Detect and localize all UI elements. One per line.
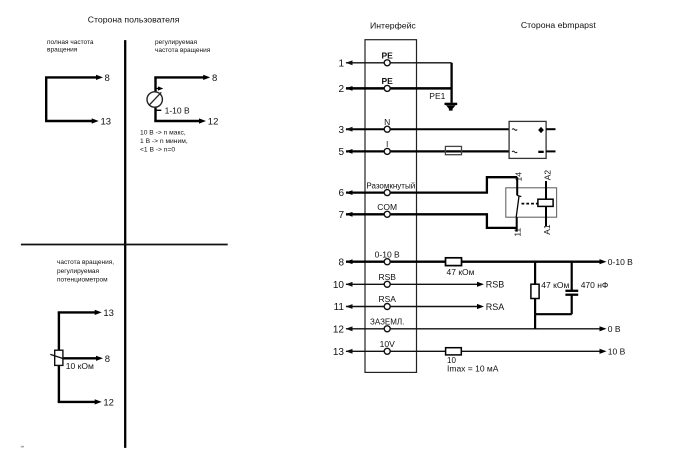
svg-text:8: 8 [338, 257, 344, 268]
svg-text:<1 В -> n=0: <1 В -> n=0 [140, 146, 175, 153]
pin 12 wire [346, 328, 602, 330]
svg-text:6: 6 [338, 188, 344, 199]
pin 13 wire [346, 350, 602, 352]
ground PE1 [445, 103, 458, 105]
wire jumper top to pin 8 [45, 76, 98, 78]
capacitor C1 [571, 262, 573, 290]
pin 6 wire [346, 177, 517, 192]
svg-text:PE1: PE1 [429, 91, 445, 101]
svg-text:0-10 В: 0-10 В [608, 257, 633, 267]
svg-text:полная частота: полная частота [47, 39, 94, 46]
wire pot wiper to pin 8 [63, 357, 97, 359]
svg-text:12: 12 [208, 117, 219, 128]
wire source bottom to pin 12 [154, 120, 200, 122]
svg-text:10 кОм: 10 кОм [66, 361, 94, 371]
svg-text:l: l [386, 139, 388, 149]
pin 8 wire [346, 261, 602, 263]
svg-text:8: 8 [105, 354, 110, 365]
resistor R1 47k [446, 258, 462, 266]
mech link dashed [522, 203, 539, 205]
wire R2 top drop [534, 262, 536, 285]
contact terminal 14 [516, 177, 518, 195]
svg-text:1: 1 [338, 58, 344, 69]
svg-text:RSB: RSB [486, 280, 505, 290]
svg-text:8: 8 [212, 73, 217, 84]
wire to 0V line [534, 314, 536, 329]
wire pot bottom to pin 12 [58, 401, 96, 403]
svg-text:47 кОм: 47 кОм [541, 280, 569, 290]
wire jumper bottom to pin 13 [45, 120, 93, 122]
wire pot top to pin 13 [58, 311, 96, 313]
pin 5 wire [346, 150, 509, 152]
svg-text:Разомкнутый: Разомкнутый [366, 181, 415, 190]
wire PE drop [450, 63, 452, 103]
svg-text:RSB: RSB [378, 272, 396, 282]
svg-text:14: 14 [514, 172, 524, 182]
svg-text:2: 2 [338, 84, 344, 95]
svg-text:COM: COM [377, 202, 397, 212]
interface pin circles [384, 60, 390, 355]
voltage source V1 1-10V [147, 92, 162, 107]
pin 10 wire [346, 283, 479, 285]
svg-text:8: 8 [105, 73, 110, 84]
power module U1 [509, 121, 546, 158]
resistor R2 47k vertical [531, 284, 539, 298]
svg-text:470 нФ: 470 нФ [581, 280, 609, 290]
label: full speed block [47, 39, 94, 54]
resistor R4 10 [446, 348, 462, 355]
divider vertical [124, 40, 126, 448]
svg-text:12: 12 [103, 398, 114, 409]
svg-text:регулируемая: регулируемая [57, 268, 100, 275]
wire pot vertical [58, 312, 60, 402]
svg-text:1-10 В: 1-10 В [165, 106, 190, 116]
svg-text:0-10 В: 0-10 В [375, 249, 400, 259]
pin 7 wire [346, 214, 517, 228]
svg-text:Интерфейс: Интерфейс [370, 20, 416, 30]
artifact dash [21, 446, 24, 448]
svg-text:PE: PE [382, 76, 394, 86]
contact terminal 11 [516, 217, 518, 231]
label: adjustable speed block [155, 39, 211, 54]
svg-text:12: 12 [333, 324, 345, 335]
svg-text:RSA: RSA [486, 302, 505, 312]
terminal A1 [545, 206, 547, 226]
interface terminal strip X1 [365, 40, 417, 373]
label: potentiometer speed block [57, 259, 114, 283]
svg-text:Сторона ebmpapst: Сторона ebmpapst [521, 20, 596, 30]
wire source circuit vertical [154, 77, 156, 121]
svg-text:13: 13 [103, 308, 114, 319]
wire source top to pin 8 [154, 76, 204, 78]
wire R2 bottom [534, 299, 536, 315]
svg-text:PE: PE [382, 51, 394, 61]
svg-text:11: 11 [513, 228, 523, 237]
pin 1 wire [346, 62, 452, 64]
svg-text:частота вращения,: частота вращения, [57, 259, 114, 266]
stub out top [546, 128, 555, 130]
pin labels [366, 51, 415, 350]
svg-text:A1: A1 [542, 224, 552, 235]
stub out bottom [546, 150, 555, 152]
svg-text:частота вращения: частота вращения [155, 47, 211, 54]
svg-text:регулируемая: регулируемая [155, 39, 198, 46]
svg-text:Imax = 10 мА: Imax = 10 мА [447, 363, 499, 373]
contact blade [517, 195, 521, 196]
svg-text:10: 10 [333, 280, 345, 291]
svg-text:RSA: RSA [378, 294, 396, 304]
pin 3 wire [346, 128, 509, 130]
svg-text:вращения: вращения [47, 47, 78, 54]
wire joiner [535, 313, 572, 315]
svg-text:7: 7 [338, 210, 344, 221]
terminal A2 [545, 181, 547, 199]
svg-text:10 В -> n макс,: 10 В -> n макс, [140, 130, 186, 137]
svg-text:1 В -> n миним,: 1 В -> n миним, [140, 138, 188, 145]
svg-text:потенциометром: потенциометром [57, 276, 108, 283]
svg-text:ЗАЗЕМЛ.: ЗАЗЕМЛ. [370, 318, 404, 327]
divider horizontal [21, 244, 228, 246]
relay K1 box [506, 188, 557, 217]
svg-text:10 В: 10 В [608, 347, 626, 357]
svg-text:11: 11 [334, 302, 345, 313]
svg-text:13: 13 [101, 117, 112, 128]
svg-text:3: 3 [338, 125, 344, 136]
svg-text:A2: A2 [543, 170, 553, 181]
wire jumper 8-13 vertical [45, 77, 47, 121]
svg-text:0 В: 0 В [608, 324, 621, 334]
annotation: voltage mapping [140, 130, 188, 154]
svg-text:N: N [384, 117, 390, 127]
coil K1 [538, 199, 553, 206]
pin 2 wire [346, 87, 452, 90]
svg-text:47 кОм: 47 кОм [447, 267, 475, 277]
svg-text:Сторона пользователя: Сторона пользователя [88, 14, 180, 24]
svg-text:10V: 10V [380, 339, 395, 349]
potentiometer R 10k [55, 350, 63, 365]
pin 11 wire [346, 306, 479, 308]
fuse F1 [445, 146, 461, 154]
svg-text:5: 5 [338, 147, 344, 158]
svg-text:13: 13 [333, 347, 345, 358]
